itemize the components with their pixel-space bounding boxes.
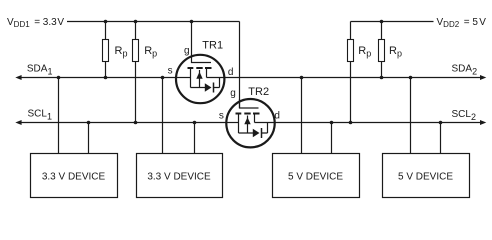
arrow SDA1 left — [15, 75, 21, 80]
TR1 channel segments — [188, 67, 212, 69]
net VDD2 rail — [351, 21, 434, 23]
svg-text:TR1: TR1 — [202, 40, 223, 52]
junction SDA1/device1 — [57, 76, 61, 80]
TR2 body-diode triangle — [253, 129, 260, 138]
box device 1 (3.3 V DEVICE) — [31, 154, 118, 198]
TR2 body-diode cathode bar — [261, 128, 263, 138]
junction SDA2/R4 — [380, 76, 384, 80]
TR2 gate lead — [240, 99, 259, 108]
TR2 channel segments — [236, 113, 260, 115]
TR1 bulk arrow — [196, 72, 202, 79]
TR1 gate lead — [192, 22, 212, 63]
wire device2 SCL drop — [194, 123, 196, 154]
svg-text:d: d — [228, 67, 234, 78]
svg-text:g: g — [230, 88, 236, 99]
TR2 source lead — [226, 122, 238, 124]
TR2 bulk arrow — [244, 117, 250, 124]
wire SCL2 — [275, 122, 482, 124]
wire device4 SCL drop — [440, 123, 442, 154]
wire SDA2 — [224, 77, 481, 79]
TR2 bulk stem — [247, 116, 249, 134]
svg-text:d: d — [274, 111, 280, 122]
junction SDA1/device2 — [161, 76, 165, 80]
transistor TR2 (MOSFET) — [226, 99, 274, 147]
TR1 body-diode path — [191, 78, 220, 88]
wire SDA1 — [20, 77, 176, 79]
wire SCL1 — [20, 122, 226, 124]
junction SCL2/R3 — [349, 121, 353, 125]
TR2 drain stem — [254, 114, 256, 123]
junction SCL1/R2 — [134, 121, 138, 125]
svg-text:s: s — [219, 110, 224, 121]
junction VDD1/R2 — [134, 20, 138, 24]
box device 3 (5 V DEVICE) — [273, 154, 360, 198]
junction VDD1/TR1 gate — [190, 20, 194, 24]
resistor R2 (Rp pull-up SCL1) — [133, 22, 139, 123]
svg-text:3.3 V DEVICE: 3.3 V DEVICE — [147, 172, 211, 183]
junction SCL1/device2 — [193, 121, 197, 125]
box device 4 (5 V DEVICE) — [383, 154, 470, 198]
junction VDD1/R1 — [104, 20, 108, 24]
TR2 body-diode path — [239, 123, 268, 134]
svg-text:5 V DEVICE: 5 V DEVICE — [398, 172, 453, 183]
wire device3 SDA drop — [301, 78, 303, 154]
TR2 body circle — [226, 99, 274, 147]
net VDD1 rail — [67, 21, 240, 23]
transistor TR1 (MOSFET) — [176, 22, 225, 104]
TR1 body-diode triangle — [205, 83, 212, 92]
svg-text:s: s — [168, 65, 173, 76]
box device 2 (3.3 V DEVICE) — [137, 154, 223, 198]
resistor R4 (Rp pull-up SDA2) — [379, 22, 385, 78]
TR1 drain lead — [207, 77, 225, 79]
svg-text:g: g — [184, 46, 190, 57]
svg-text:5 V DEVICE: 5 V DEVICE — [288, 172, 343, 183]
TR1 source lead — [176, 77, 191, 79]
junction SDA2/device4 — [409, 76, 413, 80]
arrow SDA2 right — [480, 75, 486, 80]
wire device1 SDA drop — [58, 78, 60, 154]
junction SDA1/R1 — [104, 76, 108, 80]
TR1 body-diode cathode bar — [213, 83, 215, 93]
svg-text:3.3 V DEVICE: 3.3 V DEVICE — [42, 172, 106, 183]
junction SCL2/device3 — [330, 121, 334, 125]
junction SDA2/device3 — [300, 76, 304, 80]
TR2 drain lead — [255, 122, 275, 124]
resistor R3 (Rp pull-up SCL2) — [348, 22, 354, 123]
wire TR2 gate from VDD1 rail — [239, 22, 241, 109]
resistor R1 (Rp pull-up SDA1) — [103, 22, 109, 78]
TR1 body circle — [176, 55, 224, 103]
TR1 drain stem — [206, 68, 208, 78]
wire device1 SCL drop — [88, 123, 90, 154]
arrow SCL1 left — [15, 120, 21, 125]
TR2 source stem — [238, 114, 240, 134]
wire device3 SCL drop — [331, 123, 333, 154]
arrow SCL2 right — [480, 120, 486, 125]
svg-text:TR2: TR2 — [248, 86, 269, 98]
junction VDD2/R4 — [380, 20, 384, 24]
TR1 source stem — [190, 68, 192, 88]
TR1 bulk stem — [199, 70, 201, 88]
junction SCL1/device1 — [87, 121, 91, 125]
wire device2 SDA drop — [162, 78, 164, 154]
junction SCL2/device4 — [439, 121, 443, 125]
wire device4 SDA drop — [410, 78, 412, 154]
